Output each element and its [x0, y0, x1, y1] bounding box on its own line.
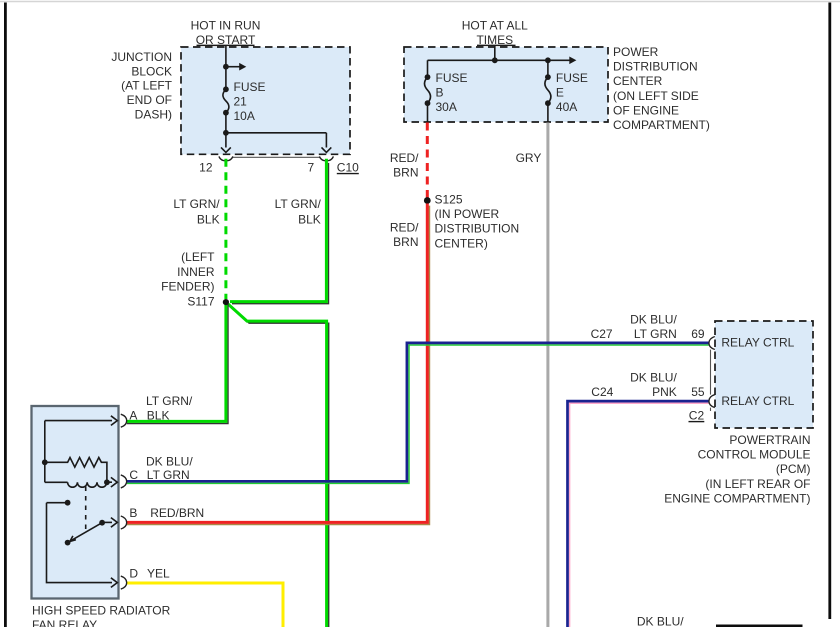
svg-text:10A: 10A [234, 109, 255, 123]
svg-text:LT GRN: LT GRN [147, 468, 190, 482]
svg-text:RED/: RED/ [390, 221, 419, 235]
svg-text:C27: C27 [591, 327, 613, 341]
svg-text:7: 7 [308, 161, 315, 175]
svg-text:LT GRN: LT GRN [634, 327, 677, 341]
svg-text:RELAY CTRL: RELAY CTRL [721, 394, 794, 408]
svg-text:(PCM): (PCM) [776, 462, 811, 476]
svg-text:POWER: POWER [613, 45, 659, 59]
svg-text:(LEFT: (LEFT [181, 250, 215, 264]
svg-text:55: 55 [691, 385, 705, 399]
svg-text:S125: S125 [435, 193, 463, 207]
svg-text:BLOCK: BLOCK [131, 64, 172, 78]
svg-text:30A: 30A [436, 100, 457, 114]
svg-text:FUSE: FUSE [234, 80, 266, 94]
svg-text:FUSE: FUSE [556, 71, 588, 85]
svg-text:OF ENGINE: OF ENGINE [613, 103, 679, 117]
svg-text:12: 12 [199, 161, 213, 175]
svg-text:D: D [129, 567, 138, 581]
svg-text:GRY: GRY [516, 151, 542, 165]
svg-text:RED/: RED/ [390, 151, 419, 165]
svg-text:BLK: BLK [197, 212, 220, 226]
svg-text:CENTER: CENTER [613, 74, 663, 88]
svg-text:BRN: BRN [393, 166, 418, 180]
svg-text:69: 69 [691, 327, 705, 341]
svg-text:FUSE: FUSE [436, 71, 468, 85]
svg-text:ENGINE COMPARTMENT): ENGINE COMPARTMENT) [664, 491, 810, 505]
svg-text:(ON LEFT SIDE: (ON LEFT SIDE [613, 89, 699, 103]
svg-text:PNK: PNK [652, 385, 677, 399]
svg-text:BLK: BLK [298, 212, 321, 226]
svg-text:(IN POWER: (IN POWER [435, 207, 500, 221]
svg-text:LT GRN/: LT GRN/ [173, 197, 220, 211]
svg-text:LT GRN/: LT GRN/ [146, 394, 193, 408]
svg-text:C24: C24 [591, 385, 613, 399]
svg-text:HOT IN RUN: HOT IN RUN [191, 19, 261, 33]
svg-text:DISTRIBUTION: DISTRIBUTION [435, 222, 520, 236]
svg-text:COMPARTMENT): COMPARTMENT) [613, 118, 710, 132]
svg-text:21: 21 [234, 95, 248, 109]
svg-text:HIGH SPEED RADIATOR: HIGH SPEED RADIATOR [32, 603, 171, 617]
svg-text:HOT AT ALL: HOT AT ALL [462, 19, 528, 33]
svg-text:RED/BRN: RED/BRN [150, 506, 204, 520]
svg-text:BLK: BLK [147, 408, 170, 422]
svg-text:C10: C10 [337, 160, 359, 174]
svg-text:BRN: BRN [393, 235, 418, 249]
svg-text:B: B [129, 506, 137, 520]
svg-text:E: E [556, 85, 564, 99]
svg-text:DISTRIBUTION: DISTRIBUTION [613, 60, 698, 74]
svg-text:DASH): DASH) [135, 107, 172, 121]
svg-text:DK BLU/: DK BLU/ [146, 455, 193, 469]
svg-text:CENTER): CENTER) [435, 236, 488, 250]
svg-text:LT GRN/: LT GRN/ [275, 197, 322, 211]
svg-text:(IN LEFT REAR OF: (IN LEFT REAR OF [705, 477, 810, 491]
svg-text:POWERTRAIN: POWERTRAIN [729, 433, 810, 447]
svg-text:DK BLU/: DK BLU/ [637, 614, 684, 627]
svg-text:C: C [129, 468, 138, 482]
svg-text:DK BLU/: DK BLU/ [630, 370, 677, 384]
svg-text:END OF: END OF [127, 93, 172, 107]
svg-text:YEL: YEL [147, 567, 170, 581]
svg-text:A: A [129, 408, 137, 422]
svg-text:CONTROL MODULE: CONTROL MODULE [698, 448, 811, 462]
svg-text:C2: C2 [689, 408, 705, 422]
svg-text:RELAY CTRL: RELAY CTRL [721, 336, 794, 350]
svg-text:(AT LEFT: (AT LEFT [121, 79, 173, 93]
svg-text:B: B [436, 85, 444, 99]
svg-text:JUNCTION: JUNCTION [111, 50, 172, 64]
svg-text:INNER: INNER [177, 265, 215, 279]
svg-text:40A: 40A [556, 100, 577, 114]
svg-text:DK BLU/: DK BLU/ [630, 312, 677, 326]
svg-text:FAN RELAY: FAN RELAY [32, 618, 97, 627]
svg-text:FENDER): FENDER) [161, 280, 214, 294]
svg-text:S117: S117 [187, 294, 214, 308]
